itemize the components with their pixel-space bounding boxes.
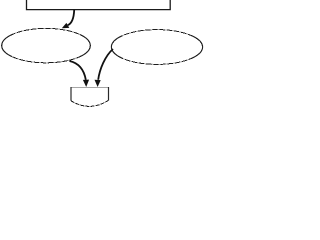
bucket bottom V <box>71 100 109 106</box>
left ellipse <box>2 28 91 62</box>
bucket top edge (light) <box>71 87 109 89</box>
bucket left side <box>70 87 72 101</box>
arrow: left ellipse to bucket (curved) <box>70 61 90 87</box>
arrow: right ellipse to bucket (curved) <box>95 49 114 87</box>
arrow: rectangle to left ellipse (curved) <box>62 10 74 29</box>
bucket (flat top, V bottom) <box>71 87 109 106</box>
bucket right side <box>108 87 110 100</box>
right ellipse <box>111 30 202 65</box>
rectangle (open-top box) <box>27 0 171 10</box>
